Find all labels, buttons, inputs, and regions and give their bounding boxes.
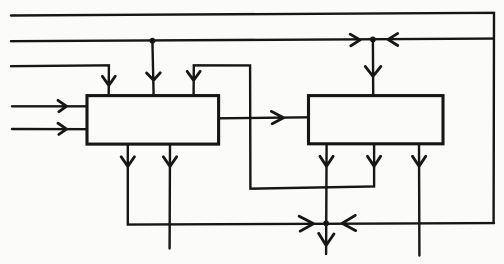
arrowhead right on input 2: [58, 123, 67, 134]
arrowhead down on line-3 drop: [102, 76, 115, 85]
arrowhead right on line 2 into top node: [350, 34, 360, 46]
node junction bottom: [323, 220, 329, 226]
wire right box output 1 down through bottom node: [325, 144, 328, 254]
arrowhead right on link: [271, 111, 283, 123]
wire line 2 (second bus): [11, 39, 493, 42]
arrowhead down on output 1: [121, 157, 134, 167]
arrowhead right on bottom bus into bottom node: [299, 216, 313, 231]
arrowhead left on bottom bus into bottom node: [342, 215, 356, 230]
arrowhead down on feedback exit below right box: [368, 156, 381, 166]
arrowhead down on right box top entry: [365, 67, 381, 77]
wire line 3 into left box top: [11, 65, 109, 93]
block right box: [309, 96, 444, 144]
arrowhead down on right output 1: [320, 156, 333, 166]
wire feedback: right box bottom to left box top: [194, 65, 375, 188]
arrowhead down on right output 3: [413, 156, 426, 166]
arrowhead down on node drop: [147, 73, 161, 80]
node junction on line 2: [149, 38, 155, 44]
arrowhead down on output 2: [163, 157, 176, 167]
wire left box output 1 down then right along bottom bus: [128, 144, 494, 224]
wire drop from line-2 node into left box top: [152, 41, 153, 94]
wire top bus: horizontal line 1 with right-side vertical drop: [11, 13, 494, 223]
wire link left box to right box: [219, 117, 308, 118]
wire drop from top node into right box: [372, 40, 375, 95]
node junction above right box: [370, 37, 376, 43]
wire left box output 2 straight down: [168, 144, 171, 248]
block left box: [87, 96, 219, 145]
wire input 2 into left box: [12, 128, 87, 131]
arrowhead right on input 1: [58, 100, 67, 111]
wire input 1 into left box: [12, 105, 87, 107]
arrowhead down below bottom node: [319, 233, 334, 245]
arrowhead down on feedback entry: [187, 71, 200, 80]
wire right box output 3 straight down: [418, 144, 421, 256]
arrowhead left on line 2 into top node: [388, 34, 398, 46]
